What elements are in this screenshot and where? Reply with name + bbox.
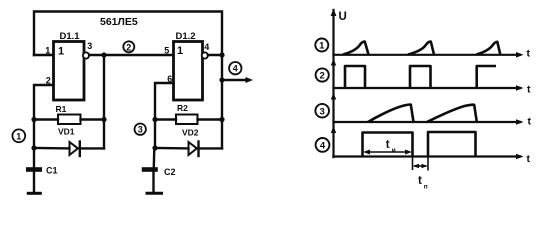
node junction R1 right <box>101 117 106 122</box>
baseline row 3 (t axis) <box>334 121 521 123</box>
resistor R1 <box>58 115 81 125</box>
svg-text:t: t <box>528 116 532 128</box>
svg-text:t: t <box>527 84 531 96</box>
wire left rail stage 2 <box>154 120 156 149</box>
svg-text:3: 3 <box>87 41 92 51</box>
node junction D1.2 out <box>219 52 224 57</box>
svg-text:1: 1 <box>16 131 21 141</box>
node 1 circled (diagram row 1) <box>315 39 328 52</box>
op-amp U2 (logic gate D1.2 body) <box>174 42 203 101</box>
node 4 circled <box>229 62 241 74</box>
node 2 circled <box>123 41 134 52</box>
waveform row4 pulse 1 <box>363 133 413 157</box>
capacitor C2 <box>153 148 156 167</box>
svg-text:D1.1: D1.1 <box>60 31 81 42</box>
arrowhead axis row3 <box>331 93 336 100</box>
waveform row2 pulse 2 <box>410 66 431 88</box>
wire pin6 input of D1.2 <box>155 83 174 120</box>
wire rail right of stage 2 <box>221 55 223 148</box>
svg-text:4: 4 <box>204 42 209 52</box>
svg-text:t: t <box>527 48 531 60</box>
node junction D1.1 out <box>101 52 106 57</box>
wire pin2 input of D1.1 <box>34 85 54 120</box>
node 3 circled <box>135 124 146 135</box>
svg-text:4: 4 <box>233 64 238 74</box>
node output bubble of D1.2 <box>202 52 208 58</box>
junction dots <box>31 52 224 150</box>
node junction output tap <box>219 77 224 82</box>
arrowhead t_p right <box>422 164 428 168</box>
svg-text:VD1: VD1 <box>58 127 75 137</box>
waveform row2 pulse 3 (cut off) <box>477 66 496 88</box>
svg-text:1: 1 <box>319 41 325 52</box>
node junction R2 left <box>152 117 157 122</box>
node output bubble of D1.1 <box>83 52 89 58</box>
waveform row1 fin 1 <box>343 42 369 55</box>
wire R2 row <box>155 118 176 120</box>
diode VD2 <box>189 142 197 155</box>
svg-text:6: 6 <box>167 74 172 84</box>
arrowhead axis row4 <box>331 126 336 133</box>
dimension arrow t_i (pulse width) <box>366 151 409 153</box>
ground (stage 2) <box>152 172 154 192</box>
svg-text:R2: R2 <box>177 103 188 113</box>
svg-text:t: t <box>527 153 531 165</box>
wire pin1 input of D1.1 <box>34 54 54 56</box>
svg-text:1: 1 <box>177 45 183 57</box>
svg-text:5: 5 <box>164 46 169 56</box>
svg-text:1: 1 <box>58 46 64 58</box>
svg-text:2: 2 <box>46 76 51 86</box>
wire top feedback from pin1 column to output rail <box>34 12 222 56</box>
node junction VD2 left <box>152 145 157 150</box>
svg-text:VD2: VD2 <box>182 128 199 138</box>
arrowhead axis row2 <box>331 59 336 66</box>
node 1 circled <box>12 129 25 142</box>
svg-text:3: 3 <box>138 125 143 135</box>
wire output of D1.2 to rail <box>208 54 222 56</box>
node 2 circled (diagram row 2) <box>316 68 329 81</box>
baseline row 1 (t axis) <box>334 54 521 56</box>
dimension arrow t_p (pause) <box>414 165 427 167</box>
ground (stage 1) <box>33 172 35 192</box>
extension line below pulse2 rise <box>427 157 429 171</box>
wire R1 row <box>34 118 58 120</box>
op-amp U1 (logic gate D1.1 body) <box>54 42 85 101</box>
waveform row1 fin 2 <box>408 42 434 55</box>
waveform row3 ramp 2 <box>427 105 477 122</box>
svg-text:D1.2: D1.2 <box>176 31 196 42</box>
extension line below pulse1 fall <box>412 157 414 171</box>
node junction VD1 left <box>31 145 36 150</box>
svg-text:C1: C1 <box>46 166 58 176</box>
svg-text:1: 1 <box>45 46 50 56</box>
wire output of D1.1 to pin5 of D1.2 <box>89 54 173 56</box>
svg-text:U: U <box>339 11 347 23</box>
waveform row4 pulse 2 <box>428 132 476 157</box>
arrowhead t row4 <box>516 154 524 160</box>
arrowhead U axis top <box>331 9 337 17</box>
waveform row1 fin 3 <box>476 42 500 55</box>
node 3 circled (diagram row 3) <box>315 104 329 118</box>
waveform row2 pulse 1 <box>345 66 365 88</box>
wire output terminal arrow <box>222 79 249 81</box>
svg-text:и: и <box>392 147 396 154</box>
arrowhead t_i left <box>363 150 370 155</box>
wire VD1 row <box>34 147 70 150</box>
waveform row3 ramp 1 <box>368 104 414 122</box>
node junction R1 left <box>31 117 36 122</box>
baseline row 4 (t axis) <box>334 155 521 157</box>
diode VD1 <box>70 142 78 155</box>
svg-text:t: t <box>386 139 390 151</box>
svg-text:R1: R1 <box>56 104 67 114</box>
svg-text:п: п <box>424 184 428 191</box>
arrowhead t row3 <box>516 119 524 125</box>
capacitor C1 <box>33 148 35 167</box>
wire VD2 row <box>155 147 189 150</box>
arrowhead t_p left <box>413 164 419 168</box>
wire rail right of stage 1 <box>103 55 105 148</box>
arrowhead t_i right <box>405 150 412 155</box>
svg-text:t: t <box>418 175 422 187</box>
node junction R2 right <box>219 117 224 122</box>
node 4 circled (diagram row 4) <box>316 138 330 152</box>
svg-text:561ЛЕ5: 561ЛЕ5 <box>100 16 138 28</box>
svg-text:2: 2 <box>320 71 325 82</box>
svg-text:2: 2 <box>126 42 131 52</box>
baseline row 2 (t axis) <box>334 87 521 89</box>
arrowhead t row2 <box>516 85 524 91</box>
svg-text:4: 4 <box>320 141 326 152</box>
resistor R2 <box>176 115 198 125</box>
svg-text:C2: C2 <box>164 167 176 177</box>
svg-text:3: 3 <box>320 106 325 117</box>
arrowhead t row1 <box>516 52 524 58</box>
wire left rail stage 1 <box>33 120 35 149</box>
U axis vertical <box>332 10 334 157</box>
